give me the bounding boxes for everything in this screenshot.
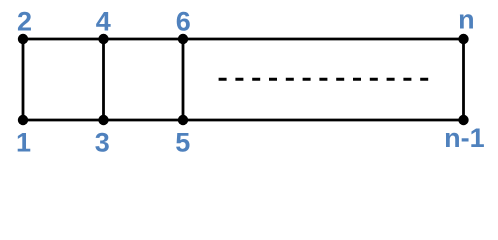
- svg-text:5: 5: [175, 128, 190, 158]
- node n-1: [458, 115, 468, 125]
- node 4: [98, 34, 108, 44]
- wire rung 2-1: [22, 39, 25, 120]
- svg-text:2: 2: [17, 6, 32, 36]
- node 5: [178, 115, 188, 125]
- svg-text:1: 1: [16, 128, 31, 158]
- svg-text:4: 4: [96, 6, 111, 36]
- node n: [458, 34, 468, 44]
- svg-text:n: n: [458, 5, 475, 35]
- node 3: [98, 115, 108, 125]
- svg-text:n-1: n-1: [444, 123, 485, 153]
- svg-text:3: 3: [95, 128, 110, 158]
- wire rung 4-3: [102, 39, 105, 120]
- svg-text:6: 6: [176, 6, 191, 36]
- node 2: [18, 34, 28, 44]
- node 1: [18, 115, 28, 125]
- wire bottom rail (node 1 to node n-1): [23, 119, 464, 122]
- wire top rail (node 2 to node n): [23, 38, 464, 41]
- wire rung 6-5: [182, 39, 185, 120]
- wire dashed continuation: [219, 78, 429, 81]
- node 6: [178, 34, 188, 44]
- wire rung n-(n-1): [462, 39, 465, 120]
